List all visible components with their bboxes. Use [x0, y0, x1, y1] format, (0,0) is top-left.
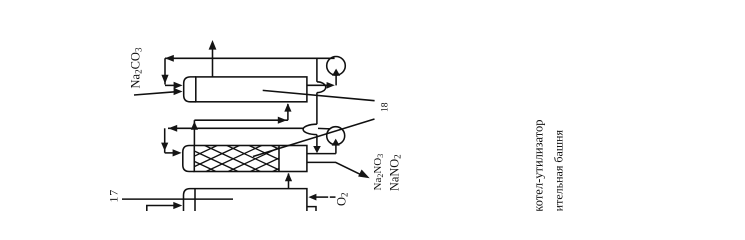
svg-text:окислительная башня: окислительная башня: [552, 130, 566, 211]
svg-text:17: 17: [107, 189, 121, 203]
svg-text:Na2NO3: Na2NO3: [372, 154, 385, 191]
svg-text:NaNO2: NaNO2: [388, 154, 403, 191]
svg-text:18: 18: [381, 102, 391, 112]
svg-text:котел-утилизатор: котел-утилизатор: [532, 119, 546, 211]
svg-text:Na2CO3: Na2CO3: [129, 47, 144, 88]
